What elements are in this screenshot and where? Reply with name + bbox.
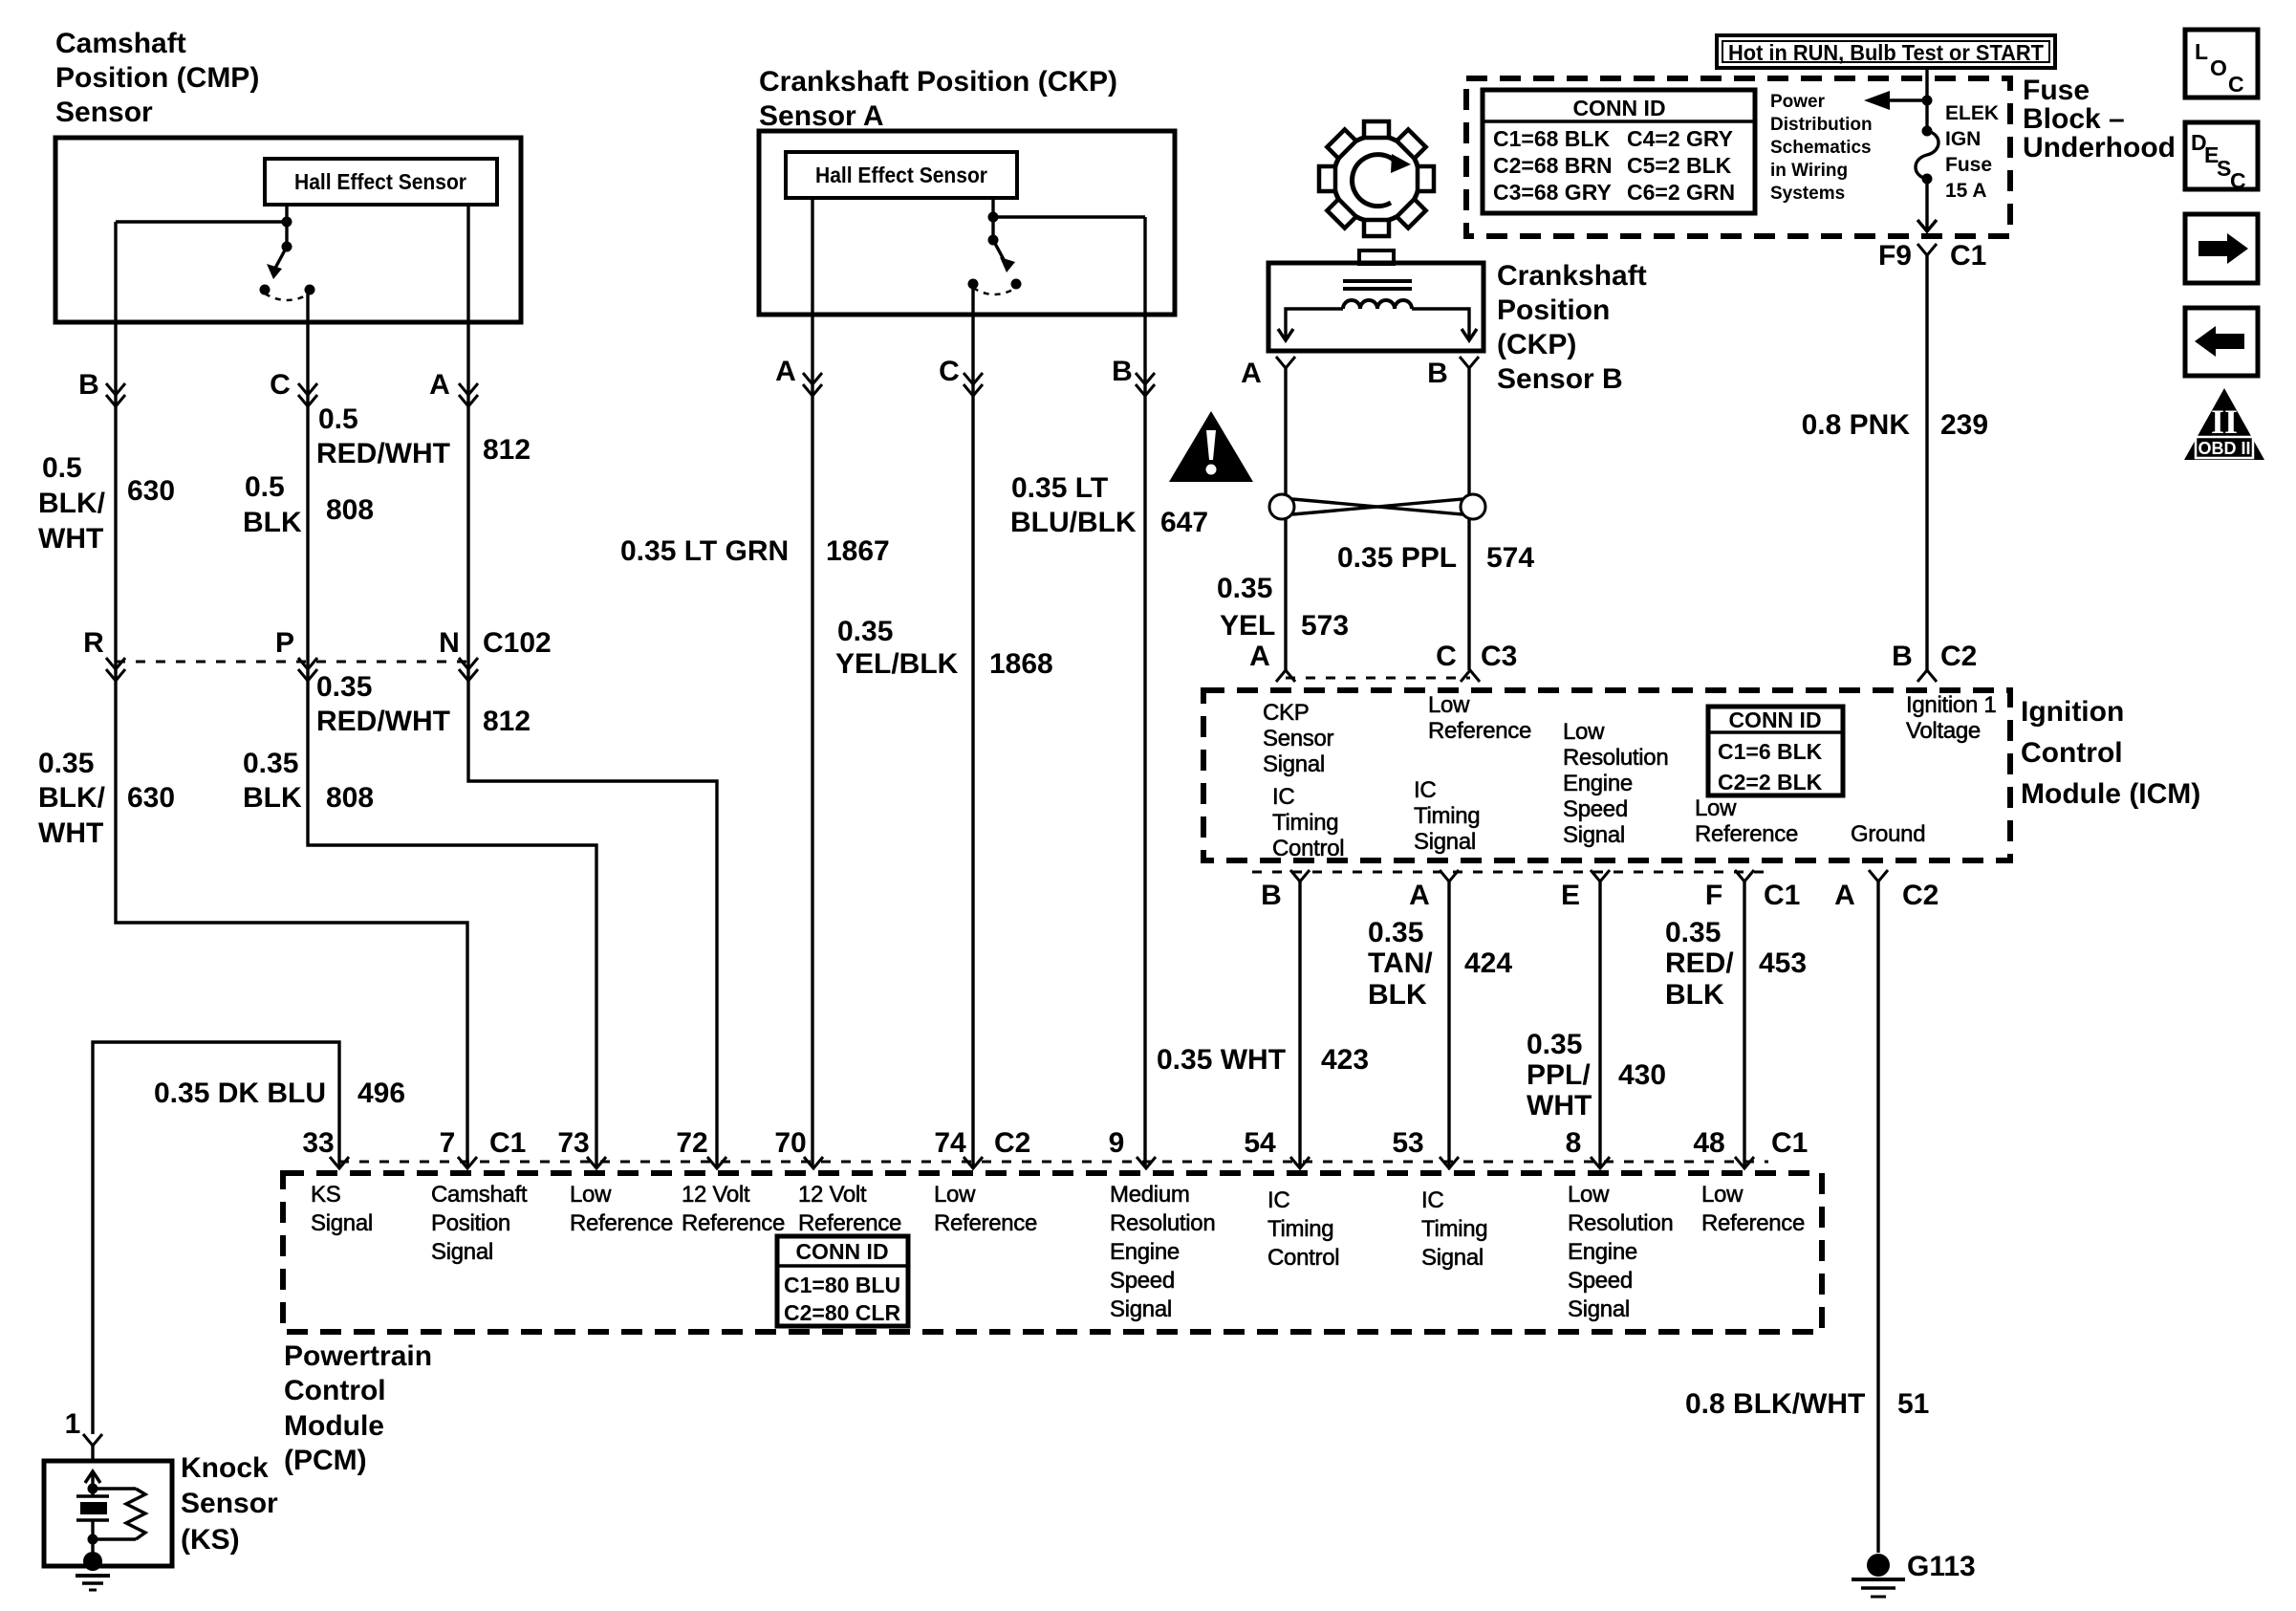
PCM pin 73 bbox=[557, 1127, 606, 1168]
Crankshaft Position (CKP) Sensor A title bbox=[759, 66, 1117, 132]
svg-text:R: R bbox=[83, 627, 104, 659]
svg-text:B: B bbox=[78, 369, 99, 401]
twisted pair symbol bbox=[1269, 494, 1485, 519]
KS internal arrow up bbox=[85, 1471, 100, 1489]
svg-text:1867: 1867 bbox=[826, 535, 890, 567]
svg-text:808: 808 bbox=[326, 494, 374, 526]
svg-text:Control: Control bbox=[1272, 836, 1344, 861]
svg-text:IC: IC bbox=[1267, 1187, 1289, 1213]
pin C label and arrows (CMP) bbox=[270, 369, 317, 406]
pin N label and arrows (C102) bbox=[439, 627, 478, 681]
ICM bottom pin A C2 (ground) bbox=[1834, 870, 1939, 911]
svg-text:Fuse: Fuse bbox=[2023, 75, 2090, 106]
svg-text:C4=2 GRY: C4=2 GRY bbox=[1627, 126, 1733, 151]
wire: fuse output with arrow bbox=[1917, 179, 1937, 231]
svg-text:0.35: 0.35 bbox=[243, 748, 298, 779]
svg-text:B: B bbox=[1427, 358, 1448, 389]
svg-text:0.8 PNK: 0.8 PNK bbox=[1802, 409, 1911, 441]
wire: internal horizontal to pin B (CMP) bbox=[116, 220, 287, 223]
PCM label Camshaft Position Signal bbox=[431, 1182, 528, 1265]
wire A of CMP sensor (0.5 RED/WHT 812) bbox=[468, 205, 717, 1167]
svg-text:Medium: Medium bbox=[1110, 1182, 1190, 1208]
wire label 0.5 BLK bbox=[243, 471, 302, 538]
svg-text:PPL/: PPL/ bbox=[1527, 1059, 1591, 1091]
svg-text:TAN/: TAN/ bbox=[1368, 947, 1433, 979]
svg-text:IC: IC bbox=[1421, 1187, 1443, 1213]
knock sensor (KS) box bbox=[44, 1461, 172, 1566]
wire: ignition feed to ICM (0.8 PNK 239) bbox=[1925, 255, 1928, 670]
svg-text:Engine: Engine bbox=[1568, 1239, 1637, 1265]
node: switch pivot dot (CMP) bbox=[282, 242, 292, 252]
svg-text:C2=2 BLK: C2=2 BLK bbox=[1718, 770, 1823, 795]
svg-text:C2: C2 bbox=[994, 1127, 1030, 1159]
svg-text:C: C bbox=[939, 356, 960, 387]
arrow to power distribution bbox=[1864, 91, 1933, 110]
svg-text:A: A bbox=[775, 356, 796, 387]
svg-text:Timing: Timing bbox=[1272, 810, 1338, 836]
svg-text:CONN ID: CONN ID bbox=[1572, 96, 1665, 120]
svg-text:C1=6 BLK: C1=6 BLK bbox=[1718, 739, 1823, 764]
PCM pin 8 bbox=[1566, 1127, 1610, 1168]
svg-text:0.35: 0.35 bbox=[38, 748, 94, 779]
svg-text:0.35 LT GRN: 0.35 LT GRN bbox=[620, 535, 789, 567]
CKP B internal wires with arrows bbox=[1278, 309, 1477, 340]
Crankshaft Position (CKP) Sensor B title bbox=[1497, 260, 1647, 395]
svg-text:Resolution: Resolution bbox=[1568, 1210, 1673, 1236]
svg-text:0.35: 0.35 bbox=[316, 671, 372, 703]
warning triangle symbol bbox=[1169, 411, 1253, 482]
KS junction dots bbox=[88, 1484, 98, 1545]
svg-text:A: A bbox=[429, 369, 450, 401]
svg-text:BLK: BLK bbox=[243, 507, 302, 538]
svg-text:0.35: 0.35 bbox=[1665, 917, 1721, 948]
svg-text:CKP: CKP bbox=[1263, 700, 1309, 726]
svg-text:Low: Low bbox=[1428, 692, 1470, 718]
svg-text:72: 72 bbox=[676, 1127, 707, 1159]
svg-text:Signal: Signal bbox=[1110, 1296, 1172, 1322]
ICM label Low Reference bbox=[1428, 692, 1531, 744]
svg-text:54: 54 bbox=[1244, 1127, 1276, 1159]
CKP B pickup coil bbox=[1343, 300, 1412, 309]
svg-text:430: 430 bbox=[1618, 1059, 1666, 1091]
CKP B core lines bbox=[1343, 281, 1412, 289]
switch contact dots (CMP) bbox=[260, 285, 315, 295]
fuse ELEK IGN 15A symbol bbox=[1916, 126, 1939, 185]
svg-text:A: A bbox=[1249, 641, 1270, 672]
PCM label Medium Resolution Engine Speed Signal bbox=[1110, 1182, 1215, 1322]
svg-text:B: B bbox=[1892, 641, 1913, 672]
switch arm with arrow (CMP) bbox=[267, 247, 287, 279]
svg-text:Module (ICM): Module (ICM) bbox=[2021, 778, 2200, 810]
svg-text:Reference: Reference bbox=[1695, 821, 1798, 847]
svg-text:C2: C2 bbox=[1902, 880, 1939, 911]
svg-text:70: 70 bbox=[774, 1127, 806, 1159]
svg-text:Signal: Signal bbox=[1414, 829, 1476, 855]
svg-text:12 Volt: 12 Volt bbox=[798, 1182, 867, 1208]
svg-text:Speed: Speed bbox=[1568, 1268, 1633, 1294]
svg-text:Knock: Knock bbox=[181, 1452, 269, 1484]
PCM label Low Reference (pin 74) bbox=[934, 1182, 1037, 1236]
svg-text:BLK: BLK bbox=[243, 782, 302, 814]
PCM label KS Signal bbox=[311, 1182, 373, 1236]
PCM pin 53 bbox=[1392, 1127, 1459, 1168]
pin C label and arrows (CKP A) bbox=[939, 356, 983, 396]
svg-text:E: E bbox=[1561, 880, 1580, 911]
svg-text:Ignition: Ignition bbox=[2021, 696, 2124, 728]
forward arrow box bbox=[2185, 214, 2258, 283]
pin B label and arrows (CMP) bbox=[78, 369, 125, 406]
svg-text:630: 630 bbox=[127, 782, 175, 814]
svg-text:0.5: 0.5 bbox=[42, 452, 82, 484]
svg-text:73: 73 bbox=[557, 1127, 589, 1159]
svg-text:808: 808 bbox=[326, 782, 374, 814]
svg-text:C1: C1 bbox=[1950, 240, 1986, 272]
svg-text:WHT: WHT bbox=[38, 523, 103, 555]
svg-text:Signal: Signal bbox=[1421, 1245, 1484, 1271]
wire B of CKP sensor A (0.35 LT BLU/BLK 647) bbox=[1143, 217, 1146, 1167]
svg-text:RED/WHT: RED/WHT bbox=[316, 438, 450, 469]
svg-text:WHT: WHT bbox=[1527, 1090, 1592, 1121]
KS ground symbol bbox=[76, 1576, 110, 1590]
wire label 0.35 RED/BLK bbox=[1665, 917, 1734, 1011]
svg-text:Reference: Reference bbox=[1701, 1210, 1805, 1236]
pin R label and arrows (C102) bbox=[83, 627, 125, 681]
ICM bottom pin B bbox=[1261, 870, 1310, 911]
svg-text:Signal: Signal bbox=[431, 1239, 493, 1265]
svg-text:Speed: Speed bbox=[1563, 796, 1628, 822]
svg-text:(PCM): (PCM) bbox=[284, 1445, 367, 1476]
svg-text:Low: Low bbox=[1695, 795, 1737, 821]
svg-text:O: O bbox=[2210, 55, 2227, 80]
svg-text:BLK/: BLK/ bbox=[38, 782, 106, 814]
ignition control module (ICM) dashed box bbox=[1203, 690, 2010, 860]
svg-text:C: C bbox=[270, 369, 291, 401]
svg-text:Position: Position bbox=[1497, 294, 1610, 326]
svg-text:Timing: Timing bbox=[1414, 803, 1480, 829]
svg-text:OBD II: OBD II bbox=[2198, 439, 2250, 458]
svg-text:(KS): (KS) bbox=[181, 1524, 240, 1556]
wire A of CKP B (0.35 YEL 573) bbox=[1284, 368, 1287, 670]
svg-text:IC: IC bbox=[1272, 784, 1294, 810]
svg-text:L: L bbox=[2195, 39, 2208, 64]
hall effect sensor box (CMP) bbox=[265, 159, 497, 205]
hall effect sensor box (CKP A) bbox=[786, 152, 1017, 198]
svg-text:Hall Effect Sensor: Hall Effect Sensor bbox=[815, 163, 987, 187]
svg-text:C2: C2 bbox=[1940, 641, 1977, 672]
svg-text:B: B bbox=[1261, 880, 1282, 911]
CKP sensor B box with mounting tab bbox=[1268, 250, 1484, 351]
wire: IC timing signal (0.35 TAN/BLK 424) bbox=[1447, 882, 1450, 1167]
svg-text:Sensor A: Sensor A bbox=[759, 100, 884, 132]
wire: hall output to switch node (CMP) bbox=[285, 205, 288, 247]
ICM top connector dashed line bbox=[1286, 677, 1470, 680]
ICM label CKP Sensor Signal bbox=[1263, 700, 1334, 777]
svg-text:Module: Module bbox=[284, 1410, 384, 1442]
svg-text:C1=80 BLU: C1=80 BLU bbox=[784, 1273, 900, 1297]
svg-text:1868: 1868 bbox=[989, 648, 1053, 680]
svg-text:0.35 DK BLU: 0.35 DK BLU bbox=[154, 1078, 326, 1109]
svg-text:573: 573 bbox=[1301, 610, 1349, 642]
svg-text:Camshaft: Camshaft bbox=[431, 1182, 528, 1208]
CONN ID table (fuse block) bbox=[1483, 90, 1755, 213]
wire: ICM ground (0.8 BLK/WHT 51) bbox=[1876, 882, 1879, 1553]
svg-text:A: A bbox=[1241, 358, 1262, 389]
wire: feed from hot box into fuse bbox=[1925, 68, 1928, 131]
svg-text:Reference: Reference bbox=[934, 1210, 1037, 1236]
svg-text:C1: C1 bbox=[1764, 880, 1800, 911]
ICM top connector B C2 bbox=[1892, 641, 1977, 682]
svg-text:A: A bbox=[1834, 880, 1855, 911]
svg-text:Reference: Reference bbox=[1428, 718, 1531, 744]
KS case ground dot bbox=[83, 1539, 102, 1571]
svg-text:Sensor: Sensor bbox=[181, 1488, 278, 1519]
svg-text:Speed: Speed bbox=[1110, 1268, 1175, 1294]
Powertrain Control Module (PCM) title bbox=[284, 1340, 432, 1476]
svg-text:Control: Control bbox=[1267, 1245, 1339, 1271]
svg-text:51: 51 bbox=[1897, 1388, 1929, 1420]
svg-text:Crankshaft Position (CKP): Crankshaft Position (CKP) bbox=[759, 66, 1117, 98]
svg-text:812: 812 bbox=[483, 706, 531, 737]
svg-text:647: 647 bbox=[1160, 507, 1208, 538]
svg-text:A: A bbox=[1409, 880, 1430, 911]
svg-text:812: 812 bbox=[483, 434, 531, 466]
svg-text:Reference: Reference bbox=[798, 1210, 901, 1236]
wire B of CMP sensor (0.5 BLK/WHT 630) bbox=[116, 222, 467, 1167]
wire label 0.35 YEL bbox=[1217, 573, 1275, 642]
svg-text:Hall Effect Sensor: Hall Effect Sensor bbox=[294, 169, 466, 194]
svg-text:Control: Control bbox=[284, 1375, 386, 1406]
CONN ID table (PCM) bbox=[777, 1236, 908, 1326]
svg-text:Distribution: Distribution bbox=[1770, 115, 1873, 135]
svg-text:C2=68 BRN: C2=68 BRN bbox=[1493, 153, 1613, 178]
svg-text:Sensor: Sensor bbox=[55, 97, 153, 128]
svg-text:Engine: Engine bbox=[1563, 771, 1633, 796]
svg-text:Position (CMP): Position (CMP) bbox=[55, 62, 259, 94]
pin A label and arrows (CMP) bbox=[429, 369, 478, 406]
svg-text:Signal: Signal bbox=[311, 1210, 373, 1236]
connector C102 dashed line bbox=[116, 661, 467, 664]
ICM bottom pin F C1 bbox=[1705, 870, 1801, 911]
wire: low resolution engine speed signal (0.35 PPL/WHT 430) bbox=[1598, 882, 1601, 1167]
wire: internal horizontal to pin B (CKP A) bbox=[993, 215, 1145, 218]
wire label 0.35 YEL/BLK bbox=[835, 616, 959, 680]
svg-text:Block –: Block – bbox=[2023, 103, 2125, 135]
Hot in RUN, Bulb Test or START box bbox=[1717, 35, 2055, 68]
LOC reference box bbox=[2185, 30, 2258, 98]
PCM top connector dashed line bbox=[339, 1161, 1768, 1164]
PCM label 12 Volt Reference (pin 70) bbox=[798, 1182, 901, 1236]
PCM pin 70 bbox=[774, 1127, 823, 1168]
CKP sensor A box bbox=[759, 131, 1175, 315]
svg-text:C3: C3 bbox=[1481, 641, 1517, 672]
svg-text:N: N bbox=[439, 627, 460, 659]
svg-text:9: 9 bbox=[1109, 1127, 1125, 1159]
svg-text:7: 7 bbox=[440, 1127, 456, 1159]
ICM label Low Resolution Engine Speed Signal bbox=[1563, 719, 1668, 848]
svg-text:Reference: Reference bbox=[682, 1210, 785, 1236]
PCM label Low Reference (pin 73) bbox=[570, 1182, 673, 1236]
ICM bottom pin E bbox=[1561, 870, 1610, 911]
ICM label IC Timing Signal bbox=[1414, 777, 1480, 855]
svg-text:Control: Control bbox=[2021, 737, 2123, 769]
PCM pin 9 bbox=[1109, 1127, 1156, 1168]
PCM pin 72 bbox=[676, 1127, 726, 1168]
ICM top connector row labels A C C3 bbox=[1249, 641, 1517, 682]
svg-text:0.35: 0.35 bbox=[1527, 1029, 1582, 1060]
PCM label Low Resolution Engine Speed Signal bbox=[1568, 1182, 1673, 1322]
svg-text:0.35 WHT: 0.35 WHT bbox=[1157, 1044, 1286, 1076]
PCM label IC Timing Signal bbox=[1421, 1187, 1487, 1271]
svg-text:C1: C1 bbox=[489, 1127, 526, 1159]
svg-text:Camshaft: Camshaft bbox=[55, 28, 186, 59]
svg-text:48: 48 bbox=[1693, 1127, 1724, 1159]
svg-text:574: 574 bbox=[1486, 542, 1534, 574]
svg-text:Position: Position bbox=[431, 1210, 510, 1236]
svg-text:Voltage: Voltage bbox=[1906, 718, 1981, 744]
svg-text:424: 424 bbox=[1464, 947, 1512, 979]
svg-text:74: 74 bbox=[934, 1127, 966, 1159]
label: Camshaft Position (CMP) Sensor title bbox=[55, 28, 259, 128]
connector F9 C1 bbox=[1878, 240, 1986, 272]
svg-text:C1: C1 bbox=[1771, 1127, 1808, 1159]
PCM pin 7 C1 bbox=[440, 1127, 527, 1168]
svg-text:RED/WHT: RED/WHT bbox=[316, 706, 450, 737]
svg-text:Schematics: Schematics bbox=[1770, 138, 1872, 158]
Fuse Block Underhood title bbox=[2023, 75, 2176, 163]
svg-text:YEL: YEL bbox=[1220, 610, 1275, 642]
CMP sensor box bbox=[55, 138, 521, 322]
switch contact dots (CKP A) bbox=[968, 279, 1022, 290]
svg-text:0.5: 0.5 bbox=[318, 403, 358, 435]
svg-text:Low: Low bbox=[1563, 719, 1605, 745]
svg-text:0.35 PPL: 0.35 PPL bbox=[1337, 542, 1457, 574]
svg-text:Fuse: Fuse bbox=[1945, 154, 1992, 176]
svg-text:Powertrain: Powertrain bbox=[284, 1340, 432, 1372]
svg-text:in Wiring: in Wiring bbox=[1770, 161, 1848, 181]
svg-text:C6=2 GRN: C6=2 GRN bbox=[1627, 180, 1735, 205]
wire label 0.35 BLK bbox=[243, 748, 302, 814]
svg-text:Hot in RUN, Bulb Test or START: Hot in RUN, Bulb Test or START bbox=[1728, 40, 2044, 65]
svg-text:C: C bbox=[2228, 72, 2244, 97]
svg-text:II: II bbox=[2211, 403, 2238, 441]
wire label 0.35 PPL/WHT bbox=[1527, 1029, 1592, 1121]
PCM pin 48 C1 bbox=[1693, 1127, 1808, 1168]
ICM label Ignition 1 Voltage bbox=[1906, 692, 1996, 744]
svg-text:YEL/BLK: YEL/BLK bbox=[835, 648, 959, 680]
svg-text:53: 53 bbox=[1392, 1127, 1423, 1159]
svg-text:BLK: BLK bbox=[1368, 979, 1427, 1011]
svg-text:0.35: 0.35 bbox=[837, 616, 893, 647]
wire B of CKP B (0.35 PPL 574) bbox=[1467, 368, 1470, 670]
svg-text:Crankshaft: Crankshaft bbox=[1497, 260, 1647, 292]
svg-text:0.8 BLK/WHT: 0.8 BLK/WHT bbox=[1685, 1388, 1865, 1420]
svg-text:IGN: IGN bbox=[1945, 128, 1981, 150]
svg-text:C2=80 CLR: C2=80 CLR bbox=[784, 1300, 900, 1325]
switch throw dashed arc (CKP A) bbox=[973, 288, 1016, 294]
svg-text:C3=68 GRY: C3=68 GRY bbox=[1493, 180, 1612, 205]
wire: hall output to switch node (CKP A) bbox=[991, 198, 994, 240]
svg-text:0.35: 0.35 bbox=[1368, 917, 1423, 948]
svg-text:630: 630 bbox=[127, 475, 175, 507]
svg-text:Timing: Timing bbox=[1267, 1216, 1333, 1242]
node: junction dot (CKP A) bbox=[988, 212, 999, 223]
ICM label IC Timing Control bbox=[1272, 784, 1344, 861]
svg-text:(CKP): (CKP) bbox=[1497, 329, 1576, 360]
svg-text:Low: Low bbox=[1568, 1182, 1610, 1208]
svg-text:Low: Low bbox=[570, 1182, 612, 1208]
svg-text:496: 496 bbox=[357, 1078, 405, 1109]
svg-text:Underhood: Underhood bbox=[2023, 132, 2176, 163]
switch arm with arrow (CKP A) bbox=[993, 240, 1015, 272]
svg-text:Resolution: Resolution bbox=[1110, 1210, 1215, 1236]
CONN ID table (ICM) bbox=[1708, 707, 1843, 795]
ground G113 symbol bbox=[1852, 1554, 1905, 1597]
svg-text:Low: Low bbox=[1701, 1182, 1744, 1208]
wire label 0.5 BLK/WHT bbox=[38, 452, 106, 555]
KS piezo element bbox=[76, 1489, 109, 1539]
label ELEK IGN Fuse 15 A bbox=[1945, 102, 1999, 202]
svg-text:BLK: BLK bbox=[1665, 979, 1724, 1011]
svg-text:Reference: Reference bbox=[570, 1210, 673, 1236]
svg-text:12 Volt: 12 Volt bbox=[682, 1182, 750, 1208]
node: junction dot (CMP) bbox=[282, 217, 292, 228]
label: Power Distribution Schematics in Wiring Systems bbox=[1770, 92, 1873, 204]
wire: IC timing control (0.35 WHT 423) bbox=[1298, 882, 1301, 1167]
svg-text:IC: IC bbox=[1414, 777, 1436, 803]
svg-text:423: 423 bbox=[1321, 1044, 1369, 1076]
PCM label 12 Volt Reference (pin 72) bbox=[682, 1182, 785, 1236]
svg-text:Sensor B: Sensor B bbox=[1497, 363, 1623, 395]
knock sensor connector bbox=[83, 1434, 102, 1463]
pin B label and arrows (CKP A) bbox=[1112, 356, 1155, 396]
Knock Sensor (KS) title bbox=[181, 1452, 278, 1556]
svg-text:P: P bbox=[275, 627, 294, 659]
svg-text:1: 1 bbox=[65, 1408, 81, 1440]
svg-text:C: C bbox=[1436, 641, 1457, 672]
connector pins A and B of CKP B bbox=[1241, 357, 1479, 389]
PCM pin 74 C2 bbox=[934, 1127, 1030, 1168]
svg-text:Engine: Engine bbox=[1110, 1239, 1180, 1265]
PCM label Low Reference (pin 48) bbox=[1701, 1182, 1805, 1236]
Ignition Control Module (ICM) title bbox=[2021, 696, 2200, 810]
svg-text:Signal: Signal bbox=[1568, 1296, 1630, 1322]
pin A label and arrows (CKP A) bbox=[775, 356, 822, 396]
wire label 0.35 RED/WHT bbox=[316, 671, 450, 737]
DESC reference box bbox=[2185, 122, 2258, 193]
ICM bottom connector dashed line bbox=[1252, 871, 1768, 874]
svg-text:Ground: Ground bbox=[1851, 821, 1925, 847]
svg-text:Low: Low bbox=[934, 1182, 976, 1208]
svg-text:Signal: Signal bbox=[1263, 751, 1325, 777]
PCM pin 33 bbox=[302, 1127, 349, 1168]
svg-text:0.5: 0.5 bbox=[245, 471, 285, 503]
svg-text:Systems: Systems bbox=[1770, 184, 1845, 204]
wire label 0.35 LT BLU/BLK bbox=[1010, 472, 1137, 538]
PCM pin 54 bbox=[1244, 1127, 1310, 1168]
KS internal resistor bbox=[93, 1489, 145, 1539]
svg-text:WHT: WHT bbox=[38, 817, 103, 849]
reluctor wheel symbol bbox=[1319, 121, 1434, 236]
svg-text:C5=2 BLK: C5=2 BLK bbox=[1627, 153, 1732, 178]
svg-text:Sensor: Sensor bbox=[1263, 726, 1334, 751]
back arrow box bbox=[2185, 308, 2258, 376]
svg-text:Timing: Timing bbox=[1421, 1216, 1487, 1242]
svg-text:33: 33 bbox=[302, 1127, 334, 1159]
wire C of CKP sensor A (0.35 YEL/BLK 1868) bbox=[971, 284, 974, 1167]
powertrain control module (PCM) dashed box bbox=[283, 1173, 1822, 1332]
wire label 0.35 BLK/WHT bbox=[38, 748, 106, 849]
svg-text:G113: G113 bbox=[1907, 1551, 1976, 1582]
